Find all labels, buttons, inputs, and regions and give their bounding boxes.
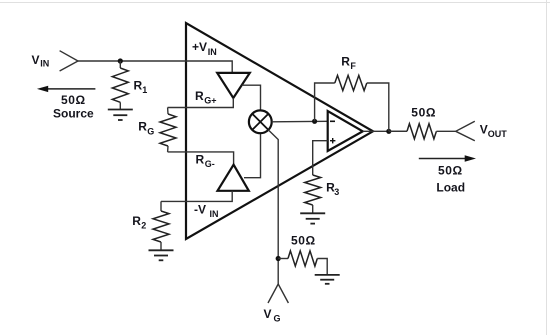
svg-text:OUT: OUT <box>488 129 508 139</box>
wire buffer A2 output to multiplier <box>244 133 261 178</box>
label R3 <box>326 181 339 198</box>
wire op-amp output <box>363 130 407 132</box>
op-amp A3 (output amplifier) <box>328 111 363 151</box>
svg-text:V: V <box>264 307 272 321</box>
svg-text:2: 2 <box>141 220 146 230</box>
resistor RG <box>160 108 176 152</box>
label 50ohm output <box>411 106 436 120</box>
arrow 50 ohm source <box>37 86 96 92</box>
label 50ohm load <box>438 164 463 178</box>
resistor R1 <box>112 61 128 110</box>
wire output to 50 ohm <box>389 130 407 132</box>
svg-text:F: F <box>350 61 356 71</box>
label VG <box>264 307 281 324</box>
label -VIN <box>194 203 219 220</box>
pin label plus <box>330 138 335 143</box>
svg-text:R: R <box>134 79 143 93</box>
amplifier body (VCA outline triangle) <box>186 23 373 239</box>
pin label minus <box>330 120 335 122</box>
svg-text:R: R <box>132 214 141 228</box>
buffer A1 (top, input stage) <box>217 73 250 98</box>
label VIN <box>32 53 50 69</box>
resistor RF feedback <box>315 75 389 131</box>
ground (R1) <box>108 110 133 121</box>
connector VIN <box>60 51 78 71</box>
svg-text:V: V <box>480 123 488 137</box>
svg-text:Load: Load <box>436 181 465 195</box>
svg-text:Source: Source <box>53 107 94 121</box>
node VIN/R1 junction <box>118 58 123 63</box>
svg-text:G: G <box>274 314 281 324</box>
connector VOUT <box>456 121 475 140</box>
label RG- <box>196 153 215 170</box>
label RF <box>341 55 356 72</box>
svg-text:IN: IN <box>208 47 217 57</box>
resistor R3 <box>305 175 321 213</box>
svg-text:50Ω: 50Ω <box>61 93 86 107</box>
label 50ohm source <box>61 93 86 107</box>
wire buffer A1 output to multiplier <box>242 85 261 110</box>
svg-text:50Ω: 50Ω <box>438 164 463 178</box>
label RG+ <box>195 89 217 106</box>
label VOUT <box>480 123 508 139</box>
node output junction <box>386 129 391 134</box>
resistor R2 <box>153 201 169 250</box>
svg-text:50Ω: 50Ω <box>291 234 316 248</box>
svg-text:IN: IN <box>40 59 49 69</box>
svg-text:3: 3 <box>334 187 339 197</box>
label Load <box>436 181 465 195</box>
multiplier U1 (gain cell) <box>249 110 272 133</box>
label R1 <box>134 79 148 96</box>
label 50ohm VG <box>291 234 316 248</box>
buffer A2 (bottom, input stage) <box>218 165 249 191</box>
svg-text:-V: -V <box>194 203 206 217</box>
arrow 50 ohm load <box>419 155 476 161</box>
svg-text:+V: +V <box>192 40 207 54</box>
svg-text:R: R <box>138 119 147 133</box>
svg-text:V: V <box>32 53 40 67</box>
svg-text:G+: G+ <box>204 96 216 106</box>
svg-text:R: R <box>341 55 350 69</box>
svg-text:50Ω: 50Ω <box>411 106 436 120</box>
ground (VG termination) <box>315 275 340 284</box>
node RF tap junction <box>312 119 317 124</box>
wire op-amp plus input to R3 <box>313 141 328 175</box>
connector VG <box>268 284 288 303</box>
svg-text:G-: G- <box>205 159 215 169</box>
svg-text:IN: IN <box>210 209 219 219</box>
ground (R2) <box>149 250 174 260</box>
wire VG to multiplier <box>268 130 278 284</box>
label Source <box>53 107 94 121</box>
ground (R3) <box>300 213 325 223</box>
wire multiplier to op-amp inverting input <box>272 120 328 123</box>
label R2 <box>132 214 146 231</box>
resistor 50 ohm output <box>407 124 456 139</box>
label RG <box>138 119 154 136</box>
svg-text:R: R <box>196 153 205 167</box>
resistor 50 ohm VG termination <box>278 251 327 275</box>
wire VIN to buffer input <box>78 61 232 73</box>
node RG- wire <box>168 152 234 165</box>
label +VIN <box>192 40 217 57</box>
wire -VIN node <box>161 191 232 202</box>
node VG junction <box>276 256 281 261</box>
svg-text:G: G <box>147 127 154 137</box>
svg-text:R: R <box>195 89 204 103</box>
svg-text:1: 1 <box>142 85 147 95</box>
node RG+ wire <box>168 98 234 108</box>
